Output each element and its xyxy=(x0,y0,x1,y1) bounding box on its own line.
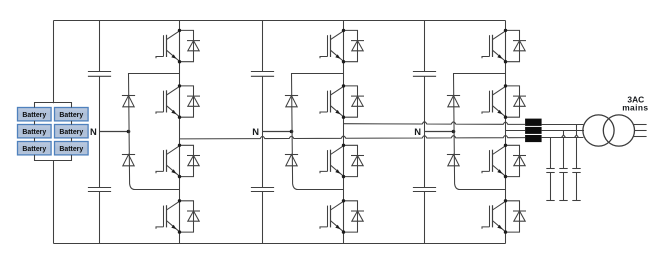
svg-text:N: N xyxy=(414,126,421,137)
svg-text:N: N xyxy=(90,126,97,137)
svg-text:Battery: Battery xyxy=(22,129,46,136)
svg-text:Battery: Battery xyxy=(59,112,83,119)
svg-text:mains: mains xyxy=(622,102,648,112)
svg-text:Battery: Battery xyxy=(59,146,83,153)
svg-text:N: N xyxy=(252,126,259,137)
svg-text:Battery: Battery xyxy=(22,112,46,119)
svg-text:Battery: Battery xyxy=(59,129,83,136)
svg-text:Battery: Battery xyxy=(22,146,46,153)
